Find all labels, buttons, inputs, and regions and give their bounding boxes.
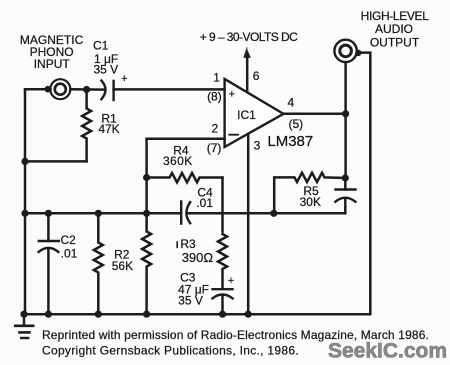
pin 2 wire — [147, 137, 225, 140]
node C3 bottom dot — [219, 311, 226, 318]
svg-text:1: 1 — [213, 71, 220, 85]
svg-text:AUDIO: AUDIO — [375, 22, 413, 36]
wire left vertical rail — [24, 90, 27, 315]
wire R4 right down — [221, 178, 224, 232]
svg-text:Copyright Gernsback Publicatio: Copyright Gernsback Publications, Inc., … — [42, 344, 299, 358]
capacitor C3 — [213, 288, 233, 290]
node R4 left dot — [143, 174, 150, 181]
connector J1 magnetic phono input — [50, 79, 70, 99]
resistor R2 — [94, 213, 103, 314]
resistor R1 — [82, 90, 91, 162]
power arrow — [243, 46, 251, 58]
node left rail dot — [21, 210, 28, 217]
resistor R3 — [218, 234, 227, 287]
node bottom left dot — [20, 311, 27, 318]
svg-text:35 V: 35 V — [178, 294, 203, 308]
node input right dot — [83, 86, 90, 93]
node R2 bottom dot — [95, 311, 102, 318]
node R2 top dot — [95, 210, 102, 217]
svg-text:INPUT: INPUT — [34, 57, 71, 71]
svg-text:35 V: 35 V — [94, 63, 119, 77]
svg-text:(8): (8) — [207, 90, 222, 104]
connector J2 audio output — [334, 40, 356, 62]
svg-text:R3: R3 — [180, 237, 196, 251]
op-amp U1 triangle — [225, 79, 284, 147]
svg-text:.01: .01 — [196, 196, 213, 210]
pin 6 wire — [246, 56, 249, 92]
wire input left horizontal — [25, 88, 51, 91]
capacitor C4 — [180, 202, 182, 224]
node C2 top dot — [45, 210, 52, 217]
svg-text:4: 4 — [287, 96, 294, 110]
middle rail left segment — [25, 212, 181, 215]
pin 3 wire — [247, 134, 250, 314]
wire connector to C1 — [71, 88, 104, 91]
svg-text:56K: 56K — [112, 259, 133, 273]
wire rail right end up — [274, 212, 346, 215]
svg-text:.01: .01 — [61, 247, 78, 261]
capacitor C1 — [101, 81, 105, 100]
ground — [23, 314, 26, 326]
capacitor C5 — [344, 178, 347, 190]
pin 2 vertical wire — [145, 139, 148, 214]
wire output node down — [344, 114, 347, 178]
node pin3 bottom dot — [245, 311, 252, 318]
svg-text:30K: 30K — [300, 195, 321, 209]
node R5 right dot — [342, 174, 349, 181]
node input left dot — [45, 86, 52, 93]
svg-text:47K: 47K — [98, 122, 119, 136]
middle rail right segment — [187, 212, 274, 215]
svg-text:(5): (5) — [288, 117, 303, 131]
node pin2 rail dot — [143, 210, 150, 217]
svg-text:360K: 360K — [163, 154, 193, 168]
svg-text:+: + — [228, 275, 234, 287]
wire output return right — [358, 53, 370, 315]
svg-text:C1: C1 — [93, 38, 109, 52]
wire R1 return — [25, 160, 87, 163]
svg-text:IC1: IC1 — [237, 108, 256, 122]
resistor R4 — [147, 173, 223, 182]
svg-text:6: 6 — [253, 69, 260, 83]
stray tick mark — [176, 242, 178, 247]
pin 4 output wire — [284, 113, 346, 116]
svg-text:2: 2 — [211, 122, 218, 136]
node output dot — [342, 110, 349, 117]
node R1 return dot — [21, 158, 28, 165]
bottom ground rail — [24, 313, 370, 316]
node C2 bottom dot — [45, 311, 52, 318]
svg-text:OUTPUT: OUTPUT — [370, 36, 420, 50]
svg-text:3: 3 — [254, 138, 261, 152]
label minus input — [229, 134, 238, 136]
svg-text:+ 9 – 30-VOLTS DC: + 9 – 30-VOLTS DC — [200, 30, 298, 44]
svg-text:LM387: LM387 — [267, 133, 313, 150]
svg-text:390Ω: 390Ω — [182, 250, 214, 265]
svg-text:+: + — [121, 73, 127, 85]
svg-text:HIGH-LEVEL: HIGH-LEVEL — [361, 9, 430, 23]
node R5 left dot — [270, 210, 277, 217]
svg-text:+: + — [229, 89, 235, 101]
node output contact dot — [355, 50, 361, 56]
wire C1 to pin 1 — [114, 88, 225, 91]
svg-text:SeekIC.com: SeekIC.com — [328, 340, 447, 363]
svg-text:(7): (7) — [207, 141, 222, 155]
resistor R gain (unlabeled) — [142, 213, 151, 314]
svg-text:C2: C2 — [61, 233, 77, 247]
wire output connector down — [344, 62, 347, 114]
resistor R5 — [274, 173, 345, 214]
capacitor C2 — [47, 213, 50, 241]
node pin2 bottom dot — [143, 311, 150, 318]
